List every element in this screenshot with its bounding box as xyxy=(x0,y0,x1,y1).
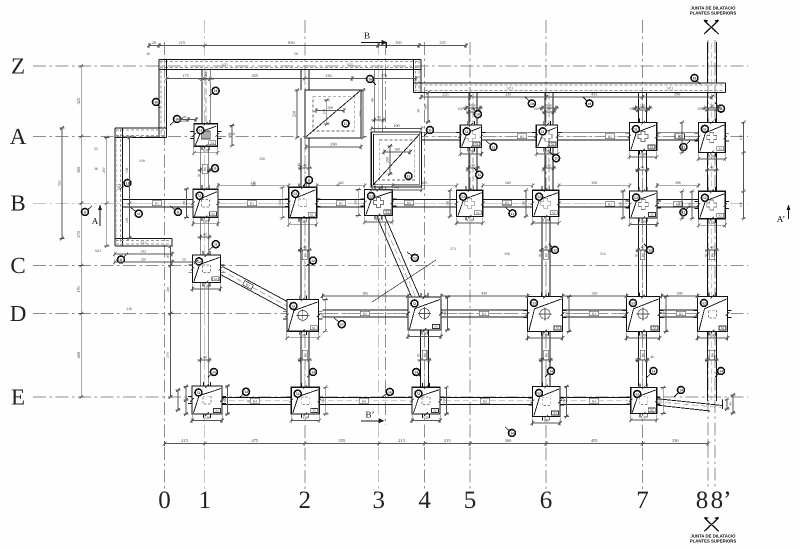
svg-text:240: 240 xyxy=(505,181,511,185)
column pad B5 xyxy=(453,186,487,225)
svg-text:SZ5: SZ5 xyxy=(347,63,353,67)
svg-text:130: 130 xyxy=(544,149,550,154)
svg-text:130: 130 xyxy=(468,149,474,154)
beam column 1 from pad C1 to E1 xyxy=(201,283,209,387)
svg-text:S2: S2 xyxy=(476,211,480,215)
svg-text:425: 425 xyxy=(422,181,428,185)
beam column 2 from footing F1 to pad B2 xyxy=(301,138,309,189)
svg-text:81: 81 xyxy=(297,248,301,252)
svg-text:160: 160 xyxy=(424,104,428,109)
svg-text:53: 53 xyxy=(292,304,296,308)
svg-text:SZ5: SZ5 xyxy=(222,63,228,67)
svg-text:14: 14 xyxy=(679,388,683,392)
svg-text:130: 130 xyxy=(678,202,682,207)
column pad A8 xyxy=(694,118,729,161)
svg-text:385: 385 xyxy=(362,291,368,295)
svg-text:360: 360 xyxy=(505,438,512,443)
beam column 1 from pad A1 to B1 xyxy=(201,146,209,190)
svg-text:40: 40 xyxy=(544,246,548,250)
svg-text:130: 130 xyxy=(522,201,526,206)
dimension line below strip Z right xyxy=(419,92,714,100)
grid axis column 3 xyxy=(372,42,385,514)
svg-text:52: 52 xyxy=(197,391,201,395)
svg-text:R3: R3 xyxy=(592,312,596,316)
svg-text:S2: S2 xyxy=(718,147,722,151)
svg-text:B: B xyxy=(10,191,25,216)
pad side dimension marks xyxy=(182,72,736,419)
dimension line left of pads E xyxy=(166,244,173,399)
small spacing dims on vertical beams xyxy=(198,106,719,363)
svg-text:40: 40 xyxy=(303,164,307,168)
column pad B2 xyxy=(285,183,321,227)
svg-text:11: 11 xyxy=(83,210,87,214)
svg-text:14: 14 xyxy=(414,370,418,374)
svg-text:S2: S2 xyxy=(211,141,215,145)
svg-text:12: 12 xyxy=(511,212,515,216)
svg-text:236: 236 xyxy=(126,307,132,311)
footing strip vertical connector at column 0 xyxy=(159,60,167,138)
svg-text:130: 130 xyxy=(203,218,209,223)
svg-text:S2: S2 xyxy=(211,212,215,216)
svg-text:S2: S2 xyxy=(433,409,437,413)
footing strip left side vertical SZ4 xyxy=(115,128,123,246)
beam column 8 from strip Z to pad A8 xyxy=(707,93,716,123)
svg-text:160: 160 xyxy=(394,148,400,152)
svg-text:130: 130 xyxy=(467,218,473,223)
svg-text:81: 81 xyxy=(635,168,639,172)
svg-text:1: 1 xyxy=(198,487,211,514)
svg-text:8’: 8’ xyxy=(711,487,732,514)
svg-text:R5: R5 xyxy=(520,135,524,139)
svg-text:130: 130 xyxy=(321,398,325,403)
svg-text:2: 2 xyxy=(299,487,312,514)
svg-text:210: 210 xyxy=(166,287,170,293)
svg-text:52: 52 xyxy=(198,194,202,198)
grid axis column 2 xyxy=(299,20,312,514)
svg-text:325: 325 xyxy=(76,98,81,104)
svg-text:30: 30 xyxy=(417,109,421,113)
svg-text:S2: S2 xyxy=(386,210,390,214)
svg-text:40: 40 xyxy=(377,116,381,120)
svg-text:130: 130 xyxy=(710,333,716,338)
svg-text:R6: R6 xyxy=(545,253,549,257)
svg-text:475: 475 xyxy=(252,438,259,443)
svg-text:150: 150 xyxy=(533,107,539,111)
svg-text:11: 11 xyxy=(137,212,141,216)
svg-text:R4: R4 xyxy=(483,399,487,403)
svg-text:11: 11 xyxy=(176,210,180,214)
svg-text:40: 40 xyxy=(641,166,645,170)
beam strip along axis E xyxy=(192,397,660,404)
beam along axis B xyxy=(123,200,726,207)
column pad B6 xyxy=(529,186,563,225)
svg-text:R1: R1 xyxy=(155,202,159,206)
svg-text:130: 130 xyxy=(204,284,210,289)
svg-text:51: 51 xyxy=(199,129,203,133)
svg-text:R6: R6 xyxy=(303,353,307,357)
svg-text:R4: R4 xyxy=(592,399,596,403)
dimension line left overall xyxy=(76,64,84,399)
svg-text:20: 20 xyxy=(146,52,150,56)
beam column 3 from strip Z to detail F2 xyxy=(375,70,383,133)
svg-text:7: 7 xyxy=(636,487,649,514)
svg-text:SZ3: SZ3 xyxy=(141,250,147,254)
svg-text:40: 40 xyxy=(547,164,551,168)
svg-text:512: 512 xyxy=(600,252,606,256)
beam column 6 from strip Z to pad A6 xyxy=(545,93,553,125)
svg-text:336: 336 xyxy=(325,73,331,78)
svg-text:38: 38 xyxy=(94,167,98,171)
svg-text:298: 298 xyxy=(674,92,680,97)
svg-text:130: 130 xyxy=(300,332,306,337)
svg-text:130: 130 xyxy=(543,218,549,223)
svg-text:12: 12 xyxy=(648,248,652,252)
misc small dimension marks xyxy=(58,52,703,416)
svg-text:58: 58 xyxy=(294,52,298,56)
svg-text:130: 130 xyxy=(640,333,646,338)
svg-text:335: 335 xyxy=(505,92,511,97)
column pad E4 xyxy=(408,383,444,423)
grid axis row B xyxy=(10,191,748,216)
svg-text:355: 355 xyxy=(339,438,346,443)
svg-text:40: 40 xyxy=(471,164,475,168)
svg-text:81: 81 xyxy=(704,253,708,257)
diagonal beam pad C1 to pad D2 xyxy=(219,267,290,311)
svg-text:130: 130 xyxy=(423,415,429,420)
svg-text:240: 240 xyxy=(250,183,256,187)
footing strip arm on axis A left xyxy=(115,128,167,138)
svg-text:E: E xyxy=(11,385,25,410)
svg-text:11: 11 xyxy=(428,128,432,132)
grid axis row E xyxy=(11,385,748,410)
svg-text:A: A xyxy=(10,124,27,149)
beam column 8 above strip Z xyxy=(707,42,716,83)
beam column 2 from pad D2 to E2 xyxy=(301,331,309,387)
svg-text:150: 150 xyxy=(697,107,703,111)
dimension line top xyxy=(147,40,468,48)
svg-text:130: 130 xyxy=(204,415,210,420)
svg-text:B: B xyxy=(364,31,370,41)
svg-text:10: 10 xyxy=(175,117,179,121)
svg-text:52: 52 xyxy=(537,391,541,395)
svg-text:130: 130 xyxy=(278,200,282,205)
svg-text:S2: S2 xyxy=(475,142,479,146)
svg-text:52: 52 xyxy=(635,392,639,396)
grid axis row A xyxy=(10,124,748,149)
svg-text:R1: R1 xyxy=(204,72,208,76)
svg-text:130: 130 xyxy=(422,331,428,336)
beam column 8 from pad D8 to axis E xyxy=(707,332,716,402)
svg-text:130: 130 xyxy=(321,313,325,318)
svg-text:10: 10 xyxy=(693,76,697,80)
svg-text:130: 130 xyxy=(182,200,186,205)
svg-text:PLANTES SUPERIORS: PLANTES SUPERIORS xyxy=(690,11,737,16)
svg-text:130: 130 xyxy=(562,399,566,404)
svg-text:400: 400 xyxy=(76,352,81,358)
svg-text:14: 14 xyxy=(212,370,216,374)
footing strip along axis Z right part SZ1 xyxy=(414,83,726,93)
svg-text:130: 130 xyxy=(662,311,666,316)
svg-text:S2: S2 xyxy=(215,409,219,413)
beam column 8 from pad B8 to D8 xyxy=(707,219,716,297)
beam column 1 from strip Z to pad A1 xyxy=(202,70,210,124)
svg-text:130: 130 xyxy=(687,202,691,207)
svg-text:S2: S2 xyxy=(312,409,316,413)
svg-text:0: 0 xyxy=(158,487,171,514)
svg-text:11: 11 xyxy=(554,157,558,161)
svg-text:81: 81 xyxy=(197,173,201,177)
svg-text:215: 215 xyxy=(398,438,405,443)
svg-text:270: 270 xyxy=(76,231,81,237)
svg-text:R6: R6 xyxy=(203,167,207,171)
dimension line bottom main xyxy=(163,438,710,446)
svg-text:455: 455 xyxy=(252,73,258,78)
section marker A' right xyxy=(777,205,791,225)
svg-text:40: 40 xyxy=(641,246,645,250)
svg-text:11: 11 xyxy=(719,107,723,111)
svg-text:298: 298 xyxy=(677,291,683,295)
svg-text:40: 40 xyxy=(538,358,542,362)
svg-text:12: 12 xyxy=(311,259,315,263)
svg-text:S3: S3 xyxy=(312,326,316,330)
column pad D7 xyxy=(623,293,664,341)
column pad E2 xyxy=(287,383,323,423)
svg-text:219: 219 xyxy=(139,159,145,163)
svg-text:130: 130 xyxy=(678,135,682,140)
grid axis column 8 xyxy=(696,40,709,514)
svg-text:B’: B’ xyxy=(366,410,375,420)
svg-text:81: 81 xyxy=(417,353,421,357)
svg-text:273: 273 xyxy=(450,247,456,251)
svg-text:130: 130 xyxy=(565,311,569,316)
svg-text:SZ1: SZ1 xyxy=(507,87,513,91)
section marker B' bottom xyxy=(361,410,385,424)
svg-text:158: 158 xyxy=(125,167,129,172)
grid axis column 5 xyxy=(464,42,477,514)
svg-text:12: 12 xyxy=(492,145,496,149)
svg-text:6: 6 xyxy=(540,487,553,514)
svg-text:R2: R2 xyxy=(339,202,343,206)
beam along axis A right section xyxy=(422,133,724,140)
svg-text:298: 298 xyxy=(675,181,681,185)
svg-text:150: 150 xyxy=(640,104,645,108)
beam column 5 from pad A5 to B5 xyxy=(469,148,477,191)
svg-text:S2: S2 xyxy=(650,213,654,217)
svg-text:130: 130 xyxy=(302,415,308,420)
svg-text:11: 11 xyxy=(214,243,218,247)
beam column 7 from pad D7 to E7 xyxy=(639,332,647,387)
svg-text:4: 4 xyxy=(418,487,431,514)
svg-text:250: 250 xyxy=(292,111,297,117)
svg-text:52: 52 xyxy=(369,194,373,198)
svg-text:46: 46 xyxy=(650,355,654,359)
section marker B top xyxy=(361,31,388,49)
svg-text:20: 20 xyxy=(152,40,156,45)
callout bubbles xyxy=(82,75,725,437)
svg-text:R2: R2 xyxy=(407,201,411,205)
svg-text:11: 11 xyxy=(307,178,311,182)
svg-text:219: 219 xyxy=(102,167,106,173)
svg-text:10: 10 xyxy=(476,113,480,117)
column pad A1 xyxy=(190,120,222,156)
grid axis column 4 xyxy=(418,42,431,514)
svg-text:40: 40 xyxy=(303,246,307,250)
column pad E7 xyxy=(627,384,661,423)
svg-text:175: 175 xyxy=(182,73,188,78)
svg-text:S2: S2 xyxy=(552,211,556,215)
svg-text:50: 50 xyxy=(182,258,186,262)
svg-text:130: 130 xyxy=(659,398,663,403)
svg-text:53: 53 xyxy=(532,301,536,305)
svg-text:130: 130 xyxy=(709,154,715,159)
column pad A5 xyxy=(456,121,485,157)
svg-text:150: 150 xyxy=(546,104,551,108)
svg-text:3: 3 xyxy=(372,487,385,514)
svg-text:S2: S2 xyxy=(551,142,555,146)
svg-text:350: 350 xyxy=(592,291,598,295)
svg-text:51: 51 xyxy=(465,130,469,134)
svg-text:10: 10 xyxy=(154,100,158,104)
svg-text:81: 81 xyxy=(538,253,542,257)
svg-text:130: 130 xyxy=(739,202,743,208)
svg-text:51: 51 xyxy=(541,130,545,134)
expansion joint note top right xyxy=(690,6,737,35)
svg-text:C: C xyxy=(10,253,25,278)
dimension line right of pad A8/B8 xyxy=(739,120,746,220)
svg-text:R3: R3 xyxy=(482,312,486,316)
svg-text:15: 15 xyxy=(344,122,348,126)
svg-text:280: 280 xyxy=(330,141,336,146)
svg-text:130: 130 xyxy=(446,201,450,206)
svg-text:358: 358 xyxy=(259,157,265,161)
svg-text:81: 81 xyxy=(465,168,469,172)
beam column 4 from pad D4 to E4 xyxy=(421,330,429,387)
svg-text:R2: R2 xyxy=(505,201,509,205)
svg-text:130: 130 xyxy=(739,135,743,141)
column pad B8 xyxy=(694,187,729,228)
column pad C1 xyxy=(189,251,225,292)
dimension line below strip Z left xyxy=(165,73,418,81)
svg-text:R6: R6 xyxy=(641,253,645,257)
svg-text:14: 14 xyxy=(244,390,248,394)
column pad A7 xyxy=(625,119,660,160)
svg-text:15: 15 xyxy=(407,174,411,178)
svg-text:13: 13 xyxy=(340,323,344,327)
svg-text:SZ1: SZ1 xyxy=(667,87,673,91)
svg-text:A’: A’ xyxy=(777,214,786,224)
svg-text:52: 52 xyxy=(703,196,707,200)
footing strip bottom arm SZ3 xyxy=(115,239,172,247)
expansion joint note bottom right xyxy=(690,517,737,544)
svg-text:130: 130 xyxy=(619,202,623,207)
svg-text:40: 40 xyxy=(710,246,714,250)
svg-text:51: 51 xyxy=(634,128,638,132)
svg-text:350: 350 xyxy=(591,181,597,185)
column pad D4 xyxy=(404,293,445,339)
svg-text:215: 215 xyxy=(181,438,188,443)
svg-text:150: 150 xyxy=(709,104,714,108)
svg-text:S2: S2 xyxy=(553,411,557,415)
beam column 7 from pad B7 to D7 xyxy=(639,218,647,297)
svg-text:40: 40 xyxy=(297,163,301,167)
grid axis row D xyxy=(10,301,748,326)
svg-text:10: 10 xyxy=(530,102,534,106)
svg-text:150: 150 xyxy=(629,107,635,111)
footing detail F2 square near axes 3/A xyxy=(370,123,424,187)
column pad A6 xyxy=(532,121,561,157)
beam column 7 from pad A7 to B7 xyxy=(639,151,647,191)
svg-text:100: 100 xyxy=(393,123,399,128)
svg-text:150: 150 xyxy=(470,104,475,108)
svg-text:D: D xyxy=(10,301,27,326)
svg-text:R4: R4 xyxy=(362,399,366,403)
grid axis row C xyxy=(10,253,748,278)
svg-text:11: 11 xyxy=(477,173,481,177)
column pad D2 xyxy=(283,296,323,341)
svg-text:R5: R5 xyxy=(608,135,612,139)
svg-text:40: 40 xyxy=(203,356,207,360)
svg-text:455: 455 xyxy=(591,438,598,443)
svg-text:130: 130 xyxy=(542,333,548,338)
grid axis column 1 xyxy=(198,20,211,514)
svg-text:R2: R2 xyxy=(608,203,612,207)
beam column 2 short stub above detail F1 xyxy=(301,70,309,91)
span dimensions above beam B xyxy=(216,181,700,188)
svg-text:200: 200 xyxy=(386,157,390,163)
diagonal beam pad B3 to pad D4 xyxy=(372,214,436,302)
svg-text:130: 130 xyxy=(354,200,358,205)
beam column 5 from strip Z to pad A5 xyxy=(469,93,477,125)
svg-text:R1: R1 xyxy=(250,202,254,206)
svg-text:215: 215 xyxy=(179,40,185,45)
svg-text:R6: R6 xyxy=(423,353,427,357)
grid axis column 8' xyxy=(711,40,732,514)
svg-text:14: 14 xyxy=(510,431,514,435)
svg-text:S2: S2 xyxy=(650,145,654,149)
svg-text:370: 370 xyxy=(166,352,170,358)
svg-text:13: 13 xyxy=(413,256,417,260)
svg-text:142: 142 xyxy=(394,186,399,190)
svg-text:130: 130 xyxy=(640,152,646,157)
svg-text:130: 130 xyxy=(223,397,227,402)
svg-text:130: 130 xyxy=(300,219,306,224)
column pad D8 xyxy=(694,293,732,341)
svg-text:81: 81 xyxy=(635,253,639,257)
svg-text:S3: S3 xyxy=(434,325,438,329)
svg-text:40: 40 xyxy=(704,358,708,362)
svg-text:178: 178 xyxy=(381,73,387,78)
section cut line B-B vertical xyxy=(385,42,387,425)
svg-text:850: 850 xyxy=(288,40,294,45)
svg-text:5: 5 xyxy=(464,487,477,514)
svg-text:130: 130 xyxy=(203,147,209,152)
beam column 8 from pad A8 to B8 xyxy=(707,153,716,191)
svg-text:52: 52 xyxy=(293,192,297,196)
svg-text:12: 12 xyxy=(553,248,557,252)
svg-text:20: 20 xyxy=(183,115,187,119)
svg-text:250: 250 xyxy=(359,111,363,116)
svg-text:14: 14 xyxy=(652,369,656,373)
svg-text:55: 55 xyxy=(94,147,98,151)
footing strip step at axis Z xyxy=(414,60,422,93)
grid axis column 7 xyxy=(636,20,649,514)
svg-text:SZ3: SZ3 xyxy=(140,241,146,245)
svg-text:11: 11 xyxy=(119,258,123,262)
svg-text:S2: S2 xyxy=(721,326,725,330)
svg-text:150: 150 xyxy=(228,133,232,138)
svg-text:350: 350 xyxy=(504,252,510,256)
svg-text:225: 225 xyxy=(439,40,445,45)
